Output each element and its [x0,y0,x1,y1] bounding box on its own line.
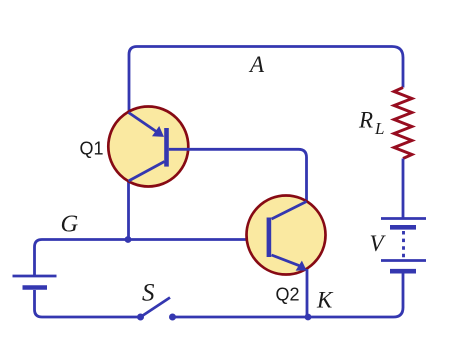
svg-text:Q1: Q1 [80,139,104,159]
wire Q1 collector to node G [127,181,130,240]
node K junction dot [305,314,312,321]
transistor Q1 collector lead [129,162,165,182]
transistor Q2 collector lead [272,202,307,220]
svg-text:Q2: Q2 [276,285,300,305]
svg-text:S: S [142,280,155,307]
svg-text:G: G [61,210,79,237]
svg-text:K: K [316,288,334,313]
battery G plate short - [23,285,48,290]
battery V plate short - [390,225,416,230]
wire Q1 base to Q2 collector [169,149,307,201]
svg-text:L: L [374,119,384,138]
svg-text:R: R [358,108,373,133]
resistor RL [394,88,412,159]
wire battery V to bottom rail [308,274,403,318]
wire bottom rail switch to left battery [35,290,141,317]
transistor Q1 body [108,107,188,187]
switch S right contact dot [169,314,176,321]
transistor Q2 emitter (arrow out, NPN) [272,255,300,266]
wire RL bottom to battery V [402,159,405,219]
battery V plate long + [381,217,426,220]
wire bottom rail K to switch [173,316,309,319]
battery G plate long + [13,275,57,278]
transistor Q2 body [247,196,326,275]
battery V plate short 2 [390,269,416,274]
wire left battery to node G rail [35,240,267,277]
wire top: node A rail from Q1 top lead to R_L top [129,47,403,113]
transistor Q1 base bar [164,128,169,167]
transistor Q2 base bar [267,218,272,258]
svg-text:A: A [248,52,265,77]
node G junction dot [125,236,132,243]
switch S lever [141,298,171,318]
battery V dashed cells [402,231,405,259]
transistor Q1 emitter (arrow into base, PNP) [129,113,158,133]
wire Q2 emitter to node K [306,269,309,317]
battery V plate long 2 [381,259,426,262]
switch S left contact dot [137,314,144,321]
